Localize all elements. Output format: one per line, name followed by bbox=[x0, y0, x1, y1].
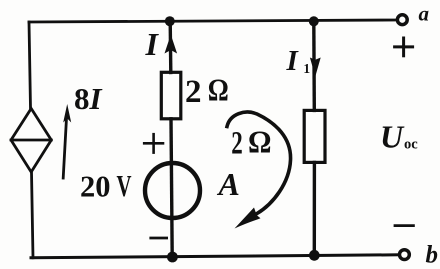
svg-text:b: b bbox=[426, 242, 439, 269]
svg-text:A: A bbox=[217, 166, 240, 202]
svg-text:2: 2 bbox=[231, 126, 243, 162]
svg-text:U: U bbox=[380, 119, 405, 155]
svg-text:V: V bbox=[117, 169, 132, 203]
svg-text:1: 1 bbox=[303, 61, 310, 76]
svg-text:Ω: Ω bbox=[248, 124, 272, 160]
svg-text:2: 2 bbox=[185, 74, 202, 110]
svg-text:20: 20 bbox=[80, 170, 111, 204]
svg-text:I: I bbox=[286, 45, 300, 77]
svg-text:oc: oc bbox=[404, 137, 418, 153]
svg-text:8I: 8I bbox=[74, 81, 103, 116]
svg-text:I: I bbox=[145, 26, 160, 62]
svg-text:a: a bbox=[419, 2, 430, 26]
svg-text:Ω: Ω bbox=[208, 72, 229, 108]
